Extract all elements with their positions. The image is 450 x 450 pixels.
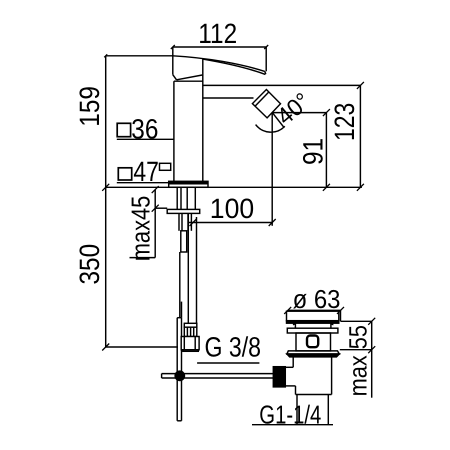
svg-text:159: 159 bbox=[74, 86, 105, 127]
svg-text:max 55: max 55 bbox=[345, 325, 373, 396]
svg-text:123: 123 bbox=[329, 103, 360, 141]
svg-text:112: 112 bbox=[198, 18, 237, 49]
svg-text:36: 36 bbox=[131, 113, 158, 144]
svg-text:100: 100 bbox=[210, 193, 254, 224]
svg-text:G 3/8: G 3/8 bbox=[205, 332, 261, 363]
svg-text:350: 350 bbox=[74, 244, 105, 285]
svg-text:91: 91 bbox=[297, 138, 328, 165]
svg-text:47: 47 bbox=[133, 156, 159, 187]
svg-text:max45: max45 bbox=[126, 196, 156, 262]
svg-text:ø 63: ø 63 bbox=[293, 284, 341, 314]
svg-text:G1-1/4: G1-1/4 bbox=[259, 400, 321, 430]
